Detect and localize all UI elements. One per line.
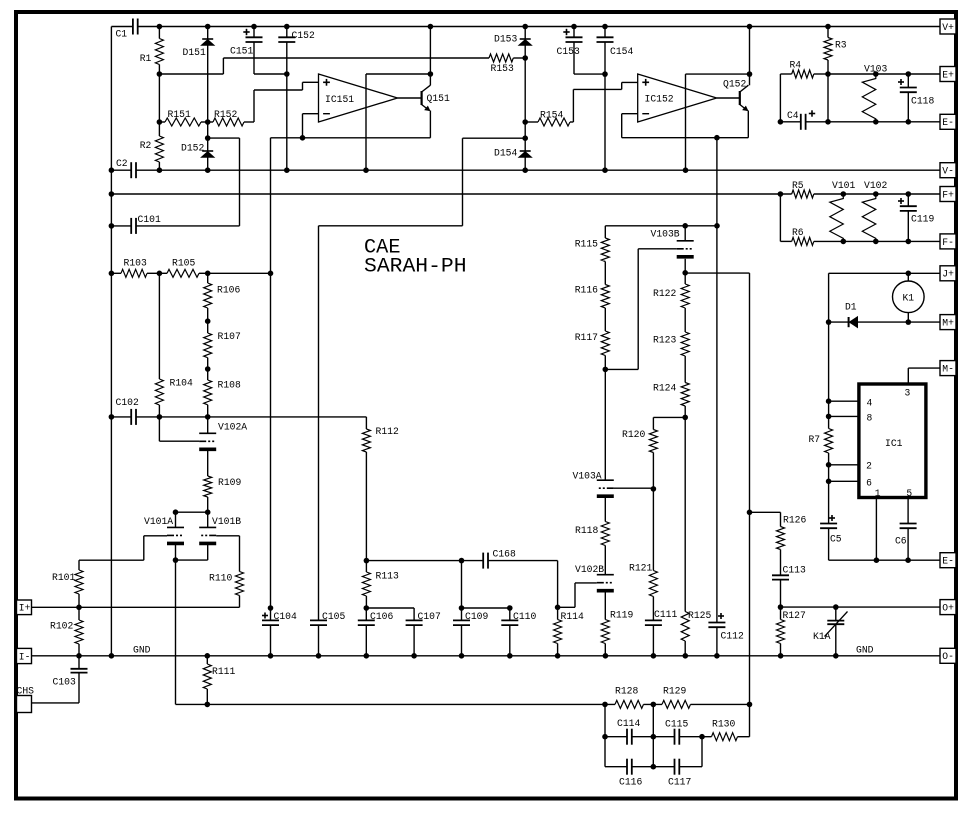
node R111 bottom (205, 702, 211, 708)
capacitor C152 (278, 27, 315, 171)
resistor R2 (140, 122, 164, 170)
node Q151 collector feedback (428, 71, 434, 77)
svg-text:V102A: V102A (218, 422, 248, 434)
node R105-R106 junction (205, 271, 211, 277)
wire R5-R6 riser (779, 194, 781, 241)
terminal V- (940, 163, 956, 178)
node V101 bottom (841, 239, 847, 245)
pin 4 label (867, 398, 873, 410)
resistor R104 (155, 273, 192, 417)
svg-text:D152: D152 (181, 143, 204, 155)
capacitor C115 (653, 719, 702, 745)
wire M- row (908, 368, 940, 384)
svg-text:R127: R127 (783, 610, 806, 622)
node C118 bottom (906, 119, 912, 125)
svg-text:V103A: V103A (573, 471, 603, 483)
capacitor C117 (653, 759, 702, 789)
svg-text:R116: R116 (575, 285, 598, 297)
terminal E- lower (940, 553, 956, 568)
svg-text:C110: C110 (513, 611, 536, 623)
wire D152 junction to C101 (208, 138, 240, 226)
capacitor C112 (708, 613, 743, 656)
wire y=225.8 to C105 (319, 226, 463, 621)
wire V103A gate (614, 487, 654, 489)
svg-text:K1: K1 (903, 293, 915, 305)
capacitor C153 (557, 27, 606, 75)
wire R109 to V101 tops (176, 511, 208, 513)
svg-text:3: 3 (905, 387, 911, 399)
wire C112 riser (716, 138, 718, 623)
svg-text:R111: R111 (212, 666, 235, 678)
svg-text:R6: R6 (792, 227, 804, 239)
text GND left (133, 645, 151, 657)
wire R124-R125 (684, 417, 686, 611)
resistor R154 (525, 110, 573, 127)
node feedback V- right (683, 167, 689, 173)
node R113 bottom (364, 605, 370, 611)
wire V101B gate (216, 536, 239, 572)
node C114 left (602, 734, 608, 740)
svg-text:V102: V102 (864, 180, 887, 192)
wire D153-R154 (524, 58, 526, 122)
capacitor C101 (111, 214, 239, 234)
svg-text:C118: C118 (911, 96, 934, 108)
resistor R125 (681, 610, 711, 656)
node C101 left (109, 223, 115, 229)
pin 3 label (905, 387, 911, 399)
terminal F+ (940, 187, 956, 202)
node R128 left (602, 702, 608, 708)
wire C115 riser (652, 704, 654, 766)
resistor R119 (601, 593, 633, 656)
svg-text:R1: R1 (140, 53, 152, 65)
svg-text:R107: R107 (218, 331, 241, 343)
wire C116 row left (605, 766, 627, 768)
capacitor C105 (310, 611, 345, 656)
svg-text:C1: C1 (116, 29, 128, 41)
svg-text:8: 8 (867, 413, 873, 425)
node C112 riser top (714, 135, 720, 141)
wire R128-R129 link (644, 703, 663, 705)
resistor R152 (208, 109, 254, 126)
node V103 bottom (873, 119, 879, 125)
svg-text:V101A: V101A (144, 516, 174, 528)
svg-text:4: 4 (867, 398, 873, 410)
node C113 bottom (778, 604, 784, 610)
wire Q151 emitter (429, 111, 431, 138)
node V101 top (841, 191, 847, 197)
node V103B top wire (682, 223, 688, 229)
wire Q152 collector (749, 27, 751, 86)
wire GND rail (32, 655, 941, 657)
wire R3-C4 link (827, 74, 829, 122)
resistor R124 (653, 383, 689, 418)
wire IC152 emitter net (622, 137, 749, 139)
svg-text:IC152: IC152 (645, 94, 674, 106)
resistor R101 (52, 560, 83, 607)
node long riser top (714, 223, 720, 229)
node R124 bottom (682, 415, 688, 421)
wire IC152 -input (622, 114, 638, 138)
wire R117-V103A (604, 369, 606, 480)
capacitor C154 (597, 27, 634, 171)
svg-text:2: 2 (866, 461, 872, 473)
node C116-C117 junction (651, 764, 657, 770)
svg-text:R128: R128 (615, 686, 638, 698)
resistor R109 (204, 451, 242, 512)
wire V102B gate (558, 583, 597, 607)
text CHS (17, 686, 35, 698)
wire Q151 collector (429, 27, 431, 86)
node pin4 junction (826, 398, 832, 404)
svg-text:IC1: IC1 (885, 438, 903, 450)
node pin6 junction (826, 479, 832, 485)
node C151 top (251, 24, 257, 30)
svg-text:SARAH-PH: SARAH-PH (364, 255, 467, 278)
capacitor C103 (32, 656, 88, 703)
wire GND left vertical (110, 27, 112, 656)
node R129 right (747, 702, 753, 708)
svg-text:C101: C101 (138, 214, 161, 226)
svg-text:GND: GND (133, 645, 151, 657)
node C4 left (778, 119, 784, 125)
svg-text:V-: V- (942, 166, 954, 178)
node C154 top (602, 24, 608, 30)
svg-text:R105: R105 (172, 258, 195, 270)
wire R126 tap (750, 511, 781, 513)
node R125 bottom (683, 653, 689, 659)
diode D154 (494, 138, 532, 170)
wire R1-R151 (158, 74, 160, 122)
svg-text:R154: R154 (540, 110, 563, 122)
pin 2 label (866, 461, 872, 473)
svg-text:R103: R103 (124, 258, 147, 270)
node V103 top (873, 71, 879, 77)
wire V+ rail (138, 26, 940, 28)
svg-text:I+: I+ (19, 603, 31, 615)
svg-text:R5: R5 (792, 180, 804, 192)
node rail-GND junction (109, 191, 115, 197)
svg-text:GND: GND (856, 645, 874, 657)
capacitor C119 (898, 194, 934, 241)
resistor R129 (662, 686, 691, 709)
resistor R112 (362, 417, 398, 561)
node R151 left (157, 119, 163, 125)
wire C104 riser (270, 273, 272, 620)
resistor R126 (777, 512, 807, 575)
node R120-R121 junction (651, 486, 657, 492)
resistor R111 (203, 656, 235, 705)
wire R124-R120 (653, 416, 685, 418)
wire R154 to +input (573, 82, 637, 122)
node D153 top (522, 24, 528, 30)
svg-text:V103B: V103B (651, 229, 680, 241)
svg-text:R119: R119 (610, 610, 633, 622)
svg-text:C2: C2 (116, 158, 128, 170)
node GND-left vertical (109, 653, 115, 659)
wire E- row lower (829, 559, 940, 561)
wire V- rail (136, 169, 940, 171)
transistor Q152 (723, 79, 748, 111)
svg-text:R123: R123 (653, 335, 676, 347)
svg-text:R112: R112 (376, 426, 399, 438)
svg-text:R153: R153 (491, 63, 514, 75)
svg-text:F-: F- (942, 237, 954, 249)
node C104 top (268, 605, 274, 611)
mosfet V103B (651, 226, 694, 257)
node feedback V- left (363, 167, 369, 173)
wire V103B source riser (749, 273, 751, 737)
wire Q151 feedback (366, 74, 430, 170)
node C109 bottom (459, 653, 465, 659)
diode D153 (494, 27, 532, 59)
node K1 top (906, 271, 912, 277)
node C119 top (906, 191, 912, 197)
svg-text:Q152: Q152 (723, 79, 746, 91)
wire sources to CHS net (175, 560, 177, 704)
node C110 top (507, 605, 513, 611)
capacitor C4 (780, 110, 828, 130)
resistor R121 (629, 489, 657, 621)
capacitor C102 (111, 397, 138, 425)
svg-text:C168: C168 (493, 549, 516, 561)
terminal E- (940, 114, 956, 129)
mosfet V102B (575, 564, 614, 591)
text CAE (364, 237, 401, 260)
svg-text:C153: C153 (557, 46, 580, 58)
node R5/R6 riser (778, 191, 784, 197)
wire J+ row (829, 273, 940, 322)
svg-text:1: 1 (875, 488, 881, 500)
node Q152 collector rail (747, 24, 753, 30)
svg-text:IC151: IC151 (325, 94, 354, 106)
node R2 bottom (157, 167, 163, 173)
node R154 left (522, 119, 528, 125)
capacitor C116 (619, 759, 653, 789)
node K1 bottom (906, 319, 912, 325)
svg-text:D1: D1 (845, 302, 857, 314)
node C152 bottom (284, 167, 290, 173)
node R101 bottom (76, 605, 82, 611)
wire R106 row to -net (208, 272, 271, 274)
capacitor C110 (501, 608, 536, 656)
node pin1 bottom (874, 557, 880, 563)
svg-text:E-: E- (942, 117, 954, 129)
resistor R118 (575, 498, 609, 575)
pin 1 label (875, 488, 881, 500)
node C114-C115 junction (651, 734, 657, 740)
node -input junction (300, 135, 306, 141)
node R114 top (555, 605, 561, 611)
node V101A top (173, 509, 179, 515)
node R104 bottom (157, 414, 163, 420)
mosfet V101B (199, 512, 241, 543)
svg-text:R113: R113 (376, 571, 399, 583)
terminal V+ (940, 19, 956, 34)
pin 5 label (906, 488, 912, 500)
node C105 bottom (316, 653, 322, 659)
wire pin4 (829, 400, 859, 402)
svg-text:R102: R102 (50, 621, 73, 633)
wire emitter net (271, 137, 431, 139)
wire V101 sources (176, 545, 208, 560)
capacitor C2 (111, 158, 136, 178)
svg-text:K1A: K1A (813, 631, 831, 643)
svg-text:C6: C6 (895, 536, 907, 548)
node R106-R107 junction (205, 318, 211, 324)
svg-text:C102: C102 (116, 397, 139, 409)
wire V102A gate (159, 417, 199, 441)
node C153-C154 junction (602, 71, 608, 77)
wire C168 row (366, 560, 483, 562)
wire R1 junction to R153 (159, 58, 489, 74)
svg-text:V101B: V101B (212, 516, 241, 528)
resistor R127 (777, 607, 806, 656)
wire IC151 output (398, 97, 422, 99)
wire IC152 output (717, 97, 740, 99)
svg-text:I-: I- (19, 651, 31, 663)
node C6 bottom (905, 557, 911, 563)
variable capacitor K1A (813, 607, 848, 656)
resistor R120 (622, 417, 657, 489)
svg-text:6: 6 (866, 477, 872, 489)
capacitor C104 (262, 611, 297, 656)
node D151 top (205, 24, 211, 30)
terminal E+ (940, 67, 956, 82)
resistor R123 (653, 332, 689, 383)
node C109 top (459, 605, 465, 611)
node R127 bottom (778, 653, 784, 659)
svg-text:R129: R129 (663, 686, 686, 698)
text SARAH-PH (364, 255, 467, 278)
svg-text:R108: R108 (218, 380, 241, 392)
op-amp IC152 (638, 74, 717, 122)
wire to emitter riser right (524, 122, 526, 138)
terminal CHS (17, 696, 32, 713)
wire J+ riser to pins (828, 322, 830, 428)
diode D1 (829, 302, 940, 328)
svg-text:M-: M- (942, 364, 954, 376)
svg-text:C117: C117 (668, 777, 691, 789)
capacitor C5 (820, 515, 842, 560)
svg-text:C112: C112 (721, 631, 744, 643)
resistor R130 (702, 719, 750, 741)
svg-text:R130: R130 (712, 719, 735, 731)
op-amp IC151 (319, 74, 398, 122)
node C153 top (571, 24, 577, 30)
terminal O+ (940, 600, 956, 615)
svg-text:C152: C152 (292, 30, 315, 42)
svg-text:R3: R3 (835, 40, 847, 52)
resistor R108 (204, 369, 241, 417)
svg-text:V+: V+ (942, 22, 954, 34)
resistor R110 (209, 572, 244, 608)
svg-text:R125: R125 (688, 610, 711, 622)
node C104 bottom (268, 653, 274, 659)
svg-text:R104: R104 (170, 378, 193, 390)
wire C109 riser (461, 561, 463, 608)
resistor R107 (204, 321, 241, 369)
wire V103B gate (605, 249, 676, 370)
node R119 bottom (603, 653, 609, 659)
svg-text:C115: C115 (665, 719, 688, 731)
node R108 bottom (205, 414, 211, 420)
node D152 cathode junction (205, 135, 211, 141)
resistor R102 (50, 607, 83, 656)
node R128-R129 junction (651, 702, 657, 708)
node D154 cathode junction (522, 135, 528, 141)
capacitor C1 (111, 19, 137, 41)
svg-text:C119: C119 (911, 214, 934, 226)
resistor R5 (792, 180, 940, 198)
wire R152 to +input (254, 82, 319, 122)
terminal M- (940, 361, 956, 376)
svg-text:R7: R7 (809, 434, 821, 446)
diode D151 (183, 27, 215, 123)
relay coil K1 (893, 273, 925, 322)
svg-text:R151: R151 (168, 109, 191, 121)
svg-text:M+: M+ (942, 318, 954, 330)
node C154 bottom (602, 167, 608, 173)
node C1/R1 junction (157, 24, 163, 30)
node D154 anode (522, 167, 528, 173)
terminal F- (940, 234, 956, 249)
svg-text:R106: R106 (217, 285, 240, 297)
svg-text:R126: R126 (783, 515, 806, 527)
node C110 bottom (507, 653, 513, 659)
node C118 top (906, 71, 912, 77)
node C106 bottom (364, 653, 370, 659)
svg-text:C105: C105 (322, 611, 345, 623)
wire O+ row (781, 606, 941, 608)
wire Q152 emitter (747, 111, 749, 138)
svg-text:C154: C154 (610, 46, 633, 58)
svg-text:R109: R109 (218, 477, 241, 489)
svg-text:C106: C106 (370, 611, 393, 623)
node C107 bottom (411, 653, 417, 659)
wire source to riser (685, 272, 749, 274)
svg-text:C103: C103 (53, 677, 76, 689)
resistor R113 (362, 561, 398, 608)
node R111 top (205, 653, 211, 659)
svg-text:C111: C111 (654, 609, 677, 621)
resistor V101 (830, 180, 856, 241)
svg-text:C107: C107 (418, 611, 441, 623)
wire R129 right (691, 703, 750, 705)
wire pin8 (829, 415, 859, 417)
resistor R117 (575, 331, 610, 369)
svg-text:C151: C151 (230, 46, 253, 58)
svg-text:Q151: Q151 (427, 93, 450, 105)
transistor Q151 (422, 85, 450, 111)
resistor R115 (575, 238, 610, 285)
node Q151 collector rail (428, 24, 434, 30)
wire IC151 -input (303, 114, 319, 138)
node C102 left (109, 414, 115, 420)
wire I+ row (32, 606, 240, 608)
wire V101A gate (79, 536, 167, 560)
node R126 tap (747, 510, 753, 516)
wire Q152 feedback (686, 74, 750, 170)
resistor R4 (780, 60, 828, 79)
svg-text:V103: V103 (864, 64, 887, 76)
wire V103B source (684, 259, 686, 273)
node -net to R106 row (268, 271, 274, 277)
wire C109-C110 top (462, 607, 510, 609)
node V101B top (205, 509, 211, 515)
svg-text:C114: C114 (617, 718, 640, 730)
node R3 bottom (825, 71, 831, 77)
